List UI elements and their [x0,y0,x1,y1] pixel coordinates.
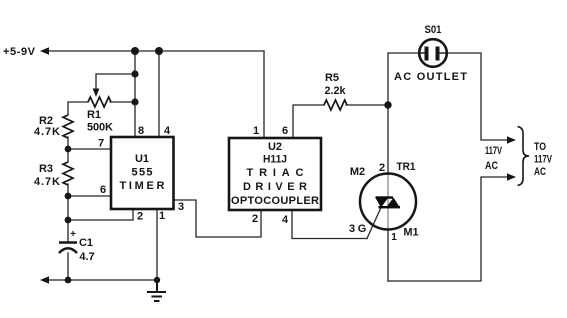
wire: U1 pin 2 to C1 node [68,209,133,220]
wire: R1 wiper connection [96,74,135,89]
wire: column to U1 pin 8 [134,51,136,137]
svg-text:6: 6 [100,184,106,196]
svg-text:R5: R5 [325,72,339,84]
wire: drop to U2 pin 1 [263,51,265,138]
wire: U1 pin 3 to U2 pin 2 [174,200,262,237]
S01 internal slots [425,47,440,61]
svg-text:TO: TO [534,141,546,153]
wire: through TR1 to M1 and down [387,229,389,281]
capacitor C1 [59,243,77,254]
wire: bottom left rail [48,279,157,281]
node: R1 right lead junction [131,98,138,105]
wire: TR1 M1 bottom return to lower 117V arrow [388,177,508,281]
svg-text:555: 555 [132,167,153,179]
arrowhead: lower 117V output [507,173,516,180]
resistor R5 zigzag [324,100,347,110]
node: rail junction pin8 column [131,47,139,55]
node: wiper junction [131,70,138,77]
wire: S01 left lead down through R5 node to TR1 M2 [388,53,420,174]
arrowhead: upper 117V output [507,136,516,143]
wire: node 6 to U1 pin 6 [68,195,111,197]
svg-text:2: 2 [252,213,258,225]
svg-text:AC OUTLET: AC OUTLET [394,71,467,83]
node: R3 bottom pin6 junction [65,193,72,200]
arrowhead: +5-9V supply [40,47,49,54]
wire: R2 to node pin7 [67,137,69,162]
wire: drop to U1 pin 4 [158,51,160,137]
wire: TR1 gate diagonal [367,208,381,239]
wire: +5-9V top supply rail [48,50,264,52]
potentiometer R1 zigzag [88,97,111,107]
svg-text:H11J: H11J [263,154,287,166]
svg-text:3: 3 [178,201,184,213]
svg-text:7: 7 [98,138,104,150]
svg-text:R1: R1 [87,109,101,121]
node: ground junction [154,277,160,283]
optocoupler U2 box [229,138,321,210]
svg-text:4.7K: 4.7K [34,126,60,138]
svg-text:6: 6 [282,125,288,137]
brace to 117V AC [518,127,530,186]
ground [147,280,166,301]
resistor R2 [63,115,73,138]
wire: R1 left lead to R2 column [68,102,88,115]
svg-text:OPTOCOUPLER: OPTOCOUPLER [231,195,319,207]
svg-text:S01: S01 [425,24,442,36]
svg-text:U1: U1 [135,153,149,165]
triac TR1 circle [360,174,416,230]
svg-text:4.7K: 4.7K [34,176,60,188]
svg-text:M2: M2 [350,166,365,178]
svg-text:117V: 117V [534,154,552,166]
svg-text:117V: 117V [485,145,502,157]
wire: R5 right lead to junction [346,104,388,106]
wire: vertical through TR1 body [387,174,389,229]
svg-text:R3: R3 [39,163,53,175]
svg-text:4: 4 [164,125,171,137]
wire: R1 right lead [110,101,135,103]
svg-text:4.7: 4.7 [79,251,94,263]
svg-text:TR1: TR1 [397,161,416,173]
S01 internal leads [420,52,446,54]
triac TR1 symbol [376,196,401,208]
wire: S01 right lead down to upper 117V arrow [447,53,508,140]
svg-text:+5-9V: +5-9V [3,46,36,58]
node: C1 top junction [65,217,72,224]
wire: U1 pin 1 to ground [156,209,158,280]
wire: R3 to node pin6 [67,184,69,242]
svg-text:1: 1 [253,125,259,137]
node: R5 output junction [384,101,391,108]
svg-text:U2: U2 [268,141,282,153]
svg-text:2: 2 [137,211,143,223]
resistor R3 [63,162,73,185]
svg-text:3: 3 [349,223,355,235]
wire: U2 pin 4 to TR1 gate [292,210,367,239]
svg-text:C1: C1 [79,237,93,249]
wire: U2 pin 6 up to R5 [293,105,324,138]
svg-text:500K: 500K [87,122,113,134]
wire: C1 bottom lead [67,253,69,280]
arrowhead: bottom-left rail [40,276,49,283]
svg-text:1: 1 [159,210,165,222]
svg-text:1: 1 [391,232,397,243]
node: rail junction pin4 drop [155,47,163,55]
svg-text:2.2k: 2.2k [325,85,347,97]
svg-text:4: 4 [282,214,289,226]
wire: node 7 to U1 pin 7 [68,148,111,150]
svg-text:G: G [358,223,367,235]
svg-text:8: 8 [138,125,144,137]
svg-text:AC: AC [485,160,498,172]
svg-text:+: + [70,229,76,240]
svg-text:M1: M1 [403,227,418,239]
node: R2/R3 pin7 junction [65,146,72,153]
svg-text:AC: AC [534,166,546,178]
op-amp U1 555 timer box [111,137,174,209]
node: C1 bottom rail junction [65,277,72,284]
svg-text:2: 2 [379,162,385,174]
arrowhead: R1 wiper [93,89,100,98]
AC outlet S01 circle [419,39,447,67]
